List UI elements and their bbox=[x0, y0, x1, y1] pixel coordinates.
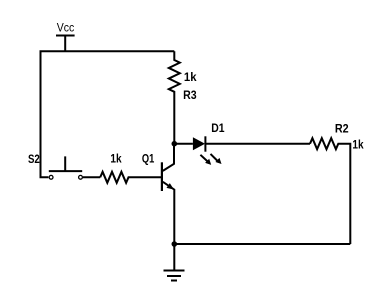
svg-text:R3: R3 bbox=[183, 90, 197, 102]
svg-text:1k: 1k bbox=[352, 140, 364, 152]
svg-text:Vcc: Vcc bbox=[57, 22, 75, 35]
svg-text:1k: 1k bbox=[110, 154, 122, 166]
svg-text:R2: R2 bbox=[335, 123, 349, 135]
svg-text:D1: D1 bbox=[211, 123, 225, 135]
svg-text:Q1: Q1 bbox=[142, 154, 155, 166]
svg-text:S2: S2 bbox=[28, 154, 40, 166]
svg-text:1k: 1k bbox=[184, 72, 197, 84]
